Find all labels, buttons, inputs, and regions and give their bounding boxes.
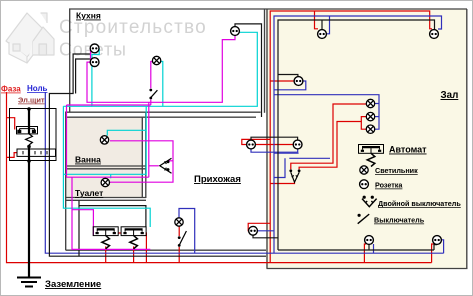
wire magenta toilet drop to breakers — [72, 177, 150, 249]
cyan wires — [63, 32, 257, 227]
wall bath/toilet divider lower — [66, 168, 146, 170]
hallway switch drop — [178, 226, 180, 262]
walls — [65, 9, 468, 269]
zal socket y81 — [274, 81, 306, 90]
wire cyan bath lamp feed — [107, 130, 146, 135]
svg-text:Прихожая: Прихожая — [194, 174, 241, 185]
svg-text:Эл.щит: Эл.щит — [18, 96, 45, 105]
hallway bottom wall — [66, 249, 266, 251]
zal top socket 1 — [318, 30, 327, 39]
wire magenta branch to breaker 1 — [72, 210, 93, 236]
faza vertical + bottom bus — [7, 92, 432, 263]
zal left riser, top run — [274, 16, 442, 253]
wire neutral segment near zal switch — [289, 157, 330, 159]
wire phase branch to lamp 3 — [361, 122, 366, 130]
wire magenta kitchen lamp-switch — [151, 62, 152, 89]
wire cyan toilet line — [63, 106, 146, 174]
legend breaker — [359, 145, 384, 167]
wire PE hallway bottom socket stub — [253, 235, 278, 238]
hallway bottom socket — [258, 230, 274, 232]
panel feed — [7, 118, 15, 130]
kitchen left wall — [69, 9, 71, 112]
zal PE riser + top run — [278, 20, 435, 250]
hallway double switch (points left) — [160, 158, 172, 173]
wire magenta kitchen drop to hall — [148, 102, 150, 177]
zal left riser and top run — [270, 11, 432, 263]
wire PE zal left socket — [278, 75, 298, 77]
wire cyan toilet lamp stub — [110, 174, 112, 178]
wire magenta bath-left drop — [66, 105, 68, 177]
svg-text:Туалет: Туалет — [75, 188, 103, 198]
black PE wires — [49, 20, 437, 256]
room fill: bath — [67, 118, 143, 198]
zal bottom socket 1 — [365, 236, 374, 245]
wall bath right inner — [141, 117, 143, 198]
wire PE toilet drop — [78, 201, 80, 257]
panel breaker — [17, 127, 38, 146]
wire neutral lamp 2 stub — [375, 116, 379, 118]
wire phase breaker 2 output riser — [145, 233, 147, 263]
kitchen right socket PE to zal — [235, 24, 262, 117]
wall toilet bottom lower — [66, 199, 146, 201]
kitchen switch — [149, 89, 157, 100]
wall kitchen bottom inner — [65, 116, 256, 118]
legend switch — [358, 214, 370, 224]
hallway bottom socket — [248, 223, 270, 231]
wire neutral zal lamps feed — [274, 95, 379, 130]
kitchen socket 1 — [90, 44, 99, 53]
toilet lamp — [101, 178, 109, 186]
wire magenta toilet cross line — [67, 176, 149, 178]
hallway bottom socket — [249, 226, 258, 235]
svg-text:Ноль: Ноль — [27, 84, 48, 93]
wire phase switch out2 to lamp 2 — [299, 117, 366, 170]
svg-text:Заземление: Заземление — [45, 279, 101, 290]
wire neutral zal bottom socket 1 stub — [373, 244, 375, 253]
svg-text:Выключатель: Выключатель — [374, 216, 425, 225]
hallway/zal socket pair right — [293, 140, 302, 149]
wire PE kitchen socket 2 stub — [76, 59, 91, 94]
zal socket at left wall y81 — [270, 80, 294, 82]
svg-text:Зал: Зал — [441, 90, 459, 101]
hallway breaker 1 — [93, 227, 118, 249]
legend double switch — [362, 196, 377, 207]
hallway switch — [178, 231, 187, 247]
wall bath/toilet divider upper — [66, 165, 146, 167]
hallway lamp — [179, 209, 195, 254]
legend socket — [360, 180, 369, 189]
magenta wires — [67, 35, 236, 249]
wire neutral lamp 1 stub — [375, 103, 379, 105]
wire phase socket pair feed — [242, 139, 270, 144]
wire phase panel meter link — [7, 153, 18, 158]
zal lamp 3 — [366, 125, 374, 133]
wall bath right outer — [145, 113, 147, 199]
wire cyan kitchen run left part — [63, 105, 92, 107]
zal left socket — [294, 77, 303, 86]
wire neutral to socket pair bottom — [274, 152, 299, 154]
wire cyan kitchen lamp stub — [161, 62, 163, 107]
wire PE zal mid socket stub — [321, 20, 323, 30]
svg-text:Фаза: Фаза — [1, 85, 21, 94]
wall toilet bottom upper — [66, 197, 146, 199]
panel box — [10, 109, 57, 161]
wire magenta switch upper dot stub — [169, 160, 173, 162]
blue neutral — [45, 16, 443, 253]
wire neutral L near zal switch — [274, 158, 285, 177]
panel main bus (thick) — [28, 109, 30, 277]
wire phase socket pair link — [255, 144, 294, 146]
zal bottom wall — [267, 268, 468, 270]
watermark house logo — [6, 13, 54, 63]
zal top mid socket — [315, 11, 319, 29]
wire phase breaker QF2 riser — [133, 246, 135, 262]
wire magenta kitchen switch run — [67, 104, 151, 106]
wall kitchen bottom outer — [65, 111, 261, 113]
top wall — [69, 8, 467, 10]
wire PE toilet branch to breaker 2 — [79, 206, 146, 227]
svg-text:Ванна: Ванна — [75, 155, 101, 165]
hallway breaker 2 — [121, 227, 146, 249]
svg-text:Автомат: Автомат — [389, 145, 427, 155]
zal top socket 2 — [430, 30, 439, 39]
wire neutral zal bottom socket 2 stub — [442, 240, 444, 253]
wire phase zal bottom socket 1 riser — [364, 244, 366, 263]
wire phase zal bottom socket 2 riser — [432, 244, 434, 263]
zal top mid socket — [327, 16, 330, 34]
kitchen socket 2 — [90, 58, 99, 67]
bath lamp — [100, 136, 108, 144]
zal right wall — [466, 9, 468, 269]
hallway/zal socket pair left — [247, 140, 256, 149]
ground symbol — [17, 278, 41, 287]
red phase from panel — [7, 11, 435, 263]
panel meter — [17, 149, 56, 156]
wire PE zal bottom socket 2 stub — [434, 245, 437, 250]
room fill: zal — [266, 9, 467, 269]
zal lamp 1 — [366, 99, 374, 107]
nol vertical + bottom bus — [45, 92, 443, 253]
wire magenta switch apex link — [149, 165, 159, 167]
wire PE zal bottom run — [278, 249, 434, 251]
wire PE zal bottom socket 1 stub — [368, 245, 370, 250]
dbl switch feed — [270, 182, 294, 184]
wire phase link between breakers — [118, 232, 121, 234]
wire cyan kitchen run to right socket — [92, 32, 257, 106]
wire magenta kitchen sockets run to right socket — [87, 35, 235, 102]
zal lamp 2 — [366, 112, 374, 120]
zal double switch — [289, 169, 300, 182]
zal left wall — [266, 9, 268, 269]
switch out1 to lamp1 — [291, 104, 367, 169]
zal bottom socket 2 — [433, 236, 442, 245]
hallway lamp — [175, 218, 183, 226]
socket pair y142: under loop — [251, 149, 298, 152]
junction dots on panel bus — [27, 107, 31, 163]
svg-text:Двойной выключатель: Двойной выключатель — [378, 199, 461, 208]
bath left wall — [65, 112, 67, 250]
wire magenta lamps loop via double switch — [110, 141, 173, 182]
wire phase breaker QF1 riser — [105, 246, 107, 262]
wire cyan bath-left drop to breaker 2 — [63, 106, 150, 227]
wire PE kitchen sockets to bottom bus — [49, 54, 266, 256]
kitchen right wall — [264, 9, 266, 113]
wire PE socket pair link — [251, 137, 298, 140]
kitchen lamp — [152, 56, 160, 64]
svg-text:Розетка: Розетка — [375, 181, 403, 190]
svg-text:Кухня: Кухня — [76, 11, 101, 21]
kitchen right socket — [231, 27, 240, 36]
legend lamp — [360, 166, 368, 174]
svg-text:Светильник: Светильник — [375, 166, 418, 175]
